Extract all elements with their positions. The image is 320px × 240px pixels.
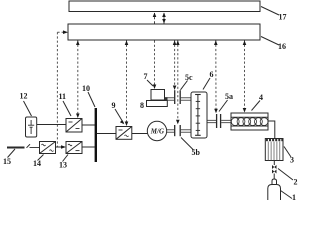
svg-text:7: 7 xyxy=(144,72,148,81)
svg-text:4: 4 xyxy=(259,93,263,102)
DC bus bar 10 xyxy=(95,108,97,162)
down onto 5c xyxy=(173,86,177,91)
down onto 5a xyxy=(214,109,218,114)
pipe compressor to radiator xyxy=(268,121,275,139)
down into 16 at 164 xyxy=(162,19,166,24)
label 17 leader xyxy=(261,7,279,16)
svg-text:5c: 5c xyxy=(185,73,193,82)
upper shaft xyxy=(164,98,174,100)
dashed control line to inverter 9 xyxy=(126,41,128,125)
valve 2 xyxy=(272,165,277,174)
label 5b leader xyxy=(181,138,194,151)
grid line 15 xyxy=(7,147,25,149)
up into 16 bottom at 126.5 xyxy=(125,41,129,46)
label 11 leader xyxy=(63,101,71,116)
label 2 leader xyxy=(278,169,293,181)
label 5c leader xyxy=(181,81,188,90)
pump box 7 xyxy=(151,90,165,101)
svg-text:10: 10 xyxy=(82,84,90,93)
dashed control line to pump 7 xyxy=(154,41,156,88)
label 14 leader xyxy=(38,155,44,161)
converter 11 xyxy=(66,119,82,133)
label 6 leader xyxy=(203,78,210,90)
switch tick xyxy=(27,144,31,148)
svg-text:17: 17 xyxy=(279,13,287,22)
up into 16 bottom at 178.5 xyxy=(176,41,180,46)
inverter 9 xyxy=(116,127,132,140)
converter 14 xyxy=(40,142,56,154)
output shaft xyxy=(207,120,216,122)
svg-text:3: 3 xyxy=(290,156,294,165)
wire 13 to bus xyxy=(82,146,95,148)
svg-text:6: 6 xyxy=(210,70,214,79)
svg-text:9: 9 xyxy=(112,101,116,110)
dashed sense line from grid wire to box 16 left xyxy=(57,32,66,146)
label 4 leader xyxy=(252,101,261,111)
label 9 leader with arrow xyxy=(115,109,124,123)
label 1 leader xyxy=(281,191,293,199)
svg-text:8: 8 xyxy=(140,101,144,110)
label 15 leader xyxy=(8,149,16,158)
wire 9 to M/G xyxy=(132,133,148,135)
up into 16 bottom at 244.5 xyxy=(243,41,247,46)
svg-text:2: 2 xyxy=(294,178,298,187)
dashed link 16 to 17 (up arrow) xyxy=(155,13,165,24)
lower shaft xyxy=(167,130,174,132)
svg-text:13: 13 xyxy=(59,161,67,170)
controller box 17 xyxy=(69,1,260,12)
right into 16 left at 32 xyxy=(63,30,68,34)
label 13 leader xyxy=(63,155,69,162)
svg-text:11: 11 xyxy=(59,92,67,101)
arrowheads xyxy=(61,13,246,149)
motor-generator M/G xyxy=(147,121,166,140)
controller box 16 xyxy=(68,24,260,40)
label 7 leader xyxy=(147,80,153,86)
svg-text:15: 15 xyxy=(3,157,11,166)
clutch 5c xyxy=(175,90,181,104)
wire 14 to 13 with arrow xyxy=(56,146,63,148)
svg-text:5b: 5b xyxy=(192,148,201,157)
svg-text:1: 1 xyxy=(292,193,296,200)
converter 13 xyxy=(66,142,82,154)
gearbox 6 xyxy=(191,92,207,138)
label 5a leader xyxy=(219,100,228,112)
wire arrow into 13 xyxy=(61,145,66,149)
up into 16 bottom at 215.8 xyxy=(214,41,218,46)
down onto 9 xyxy=(125,122,129,127)
wire battery to converter 11 xyxy=(37,124,66,126)
dashed control line to clutch 5b xyxy=(177,41,179,123)
wire 11 to bus xyxy=(82,124,95,126)
svg-text:M/G: M/G xyxy=(150,127,164,135)
up into 16 bottom at 175 xyxy=(173,41,177,46)
cylinder cap xyxy=(272,179,277,185)
pipe valve to cylinder xyxy=(273,174,275,180)
label 3 leader xyxy=(284,147,291,158)
clutch 5b xyxy=(175,125,181,136)
up into 17 at 154.5 xyxy=(153,13,157,18)
gas cylinder 1 xyxy=(268,185,281,201)
battery 12 xyxy=(26,117,37,137)
radiator 3 xyxy=(265,139,283,161)
up into 17 at 164 xyxy=(162,13,166,18)
arrow on label-9 leader xyxy=(120,120,124,124)
coupling 5a xyxy=(217,114,221,128)
up into 16 bottom at 77.8 xyxy=(76,41,80,46)
svg-text:16: 16 xyxy=(278,42,286,51)
svg-text:5a: 5a xyxy=(225,92,233,101)
dashed control line to converter 11 xyxy=(77,41,79,117)
down onto 7 xyxy=(153,85,157,90)
label 16 leader xyxy=(261,37,279,46)
label 10 leader xyxy=(88,92,95,107)
compressor 4 xyxy=(231,113,268,130)
svg-text:12: 12 xyxy=(20,92,28,101)
svg-text:14: 14 xyxy=(33,159,41,168)
dashed control line to coupling 5a xyxy=(215,41,217,112)
down onto 4 xyxy=(243,108,247,113)
dashed control line to clutch 5c xyxy=(174,41,176,89)
wire bus to 9 xyxy=(97,133,116,135)
pipe radiator to valve xyxy=(273,161,275,166)
down onto 11 xyxy=(76,114,80,119)
base plate 8 xyxy=(147,101,168,107)
label 12 leader xyxy=(24,101,32,116)
down onto 5b xyxy=(176,120,180,125)
dashed control line to compressor 4 xyxy=(244,41,246,112)
